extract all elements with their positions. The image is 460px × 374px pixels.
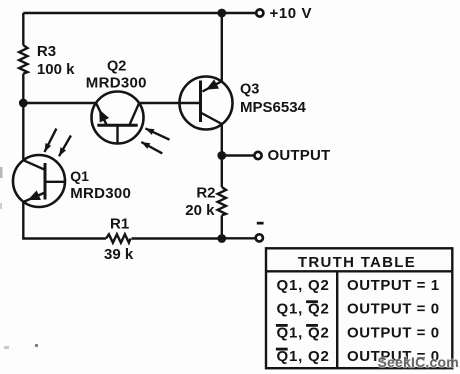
svg-text:R2: R2 <box>196 184 215 201</box>
svg-text:Q1, Q2: Q1, Q2 <box>277 277 330 294</box>
svg-text:Q1, Q2: Q1, Q2 <box>277 348 330 365</box>
svg-text:OUTPUT = 0: OUTPUT = 0 <box>347 301 440 318</box>
svg-text:MRD300: MRD300 <box>86 75 147 92</box>
svg-text:+10 V: +10 V <box>270 5 313 22</box>
svg-text:39 k: 39 k <box>104 246 134 263</box>
svg-text:Q2: Q2 <box>107 58 126 74</box>
svg-text:Q1, Q2: Q1, Q2 <box>277 301 330 318</box>
svg-text:20 k: 20 k <box>185 202 215 219</box>
svg-text:R3: R3 <box>37 43 56 60</box>
svg-text:R1: R1 <box>110 216 129 233</box>
svg-text:Q1, Q2: Q1, Q2 <box>277 324 330 341</box>
svg-text:SeekIC.com: SeekIC.com <box>378 354 459 370</box>
svg-text:MRD300: MRD300 <box>70 185 131 202</box>
svg-text:OUTPUT = 0: OUTPUT = 0 <box>347 324 440 341</box>
svg-text:Q1: Q1 <box>70 168 89 184</box>
svg-text:OUTPUT: OUTPUT <box>268 147 331 164</box>
svg-text:Q3: Q3 <box>240 81 259 97</box>
svg-text:100 k: 100 k <box>37 61 75 78</box>
svg-text:MPS6534: MPS6534 <box>240 99 307 116</box>
svg-text:TRUTH TABLE: TRUTH TABLE <box>298 254 416 271</box>
svg-text:OUTPUT = 1: OUTPUT = 1 <box>347 277 440 294</box>
